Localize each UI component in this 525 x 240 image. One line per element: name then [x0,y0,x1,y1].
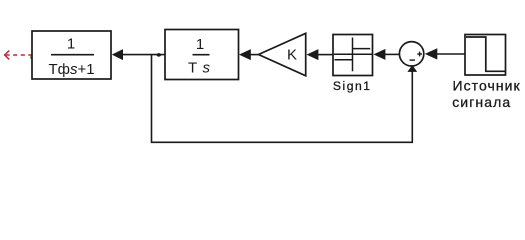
wire sign1 -> gain [318,54,334,56]
wire gain -> block2 [250,54,259,56]
svg-text:Источник: Источник [453,78,521,94]
svg-text:1: 1 [196,36,204,53]
unconnected output arrow (red dashed) [5,51,32,60]
arrowhead into sign block [374,49,386,60]
junction dot [157,53,162,57]
svg-text:сигнала: сигнала [452,94,511,110]
sum junction [399,42,423,66]
arrowhead into gain [307,49,319,60]
svg-text:Sign1: Sign1 [333,79,372,93]
port mark (green) [30,56,32,59]
arrowhead into block2 [239,49,251,60]
gain triangle K [259,33,306,76]
signal source block [465,35,506,76]
integrator block 1/Ts [165,30,239,80]
sign block Sign1 [333,35,373,76]
feedback wire [152,55,413,142]
transfer-function block 1/(Tfs+1) [32,31,111,79]
wire block2 -> block1 [122,54,165,56]
wire sum -> sign block [385,53,400,55]
wire source -> sum [437,53,466,55]
svg-text:1: 1 [67,36,75,53]
svg-text:K: K [287,47,297,64]
arrowhead into block1 [112,49,123,60]
svg-text:Тфs+1: Тфs+1 [48,61,94,78]
arrowhead up into sum [407,65,417,72]
arrowhead into sum [425,48,438,59]
